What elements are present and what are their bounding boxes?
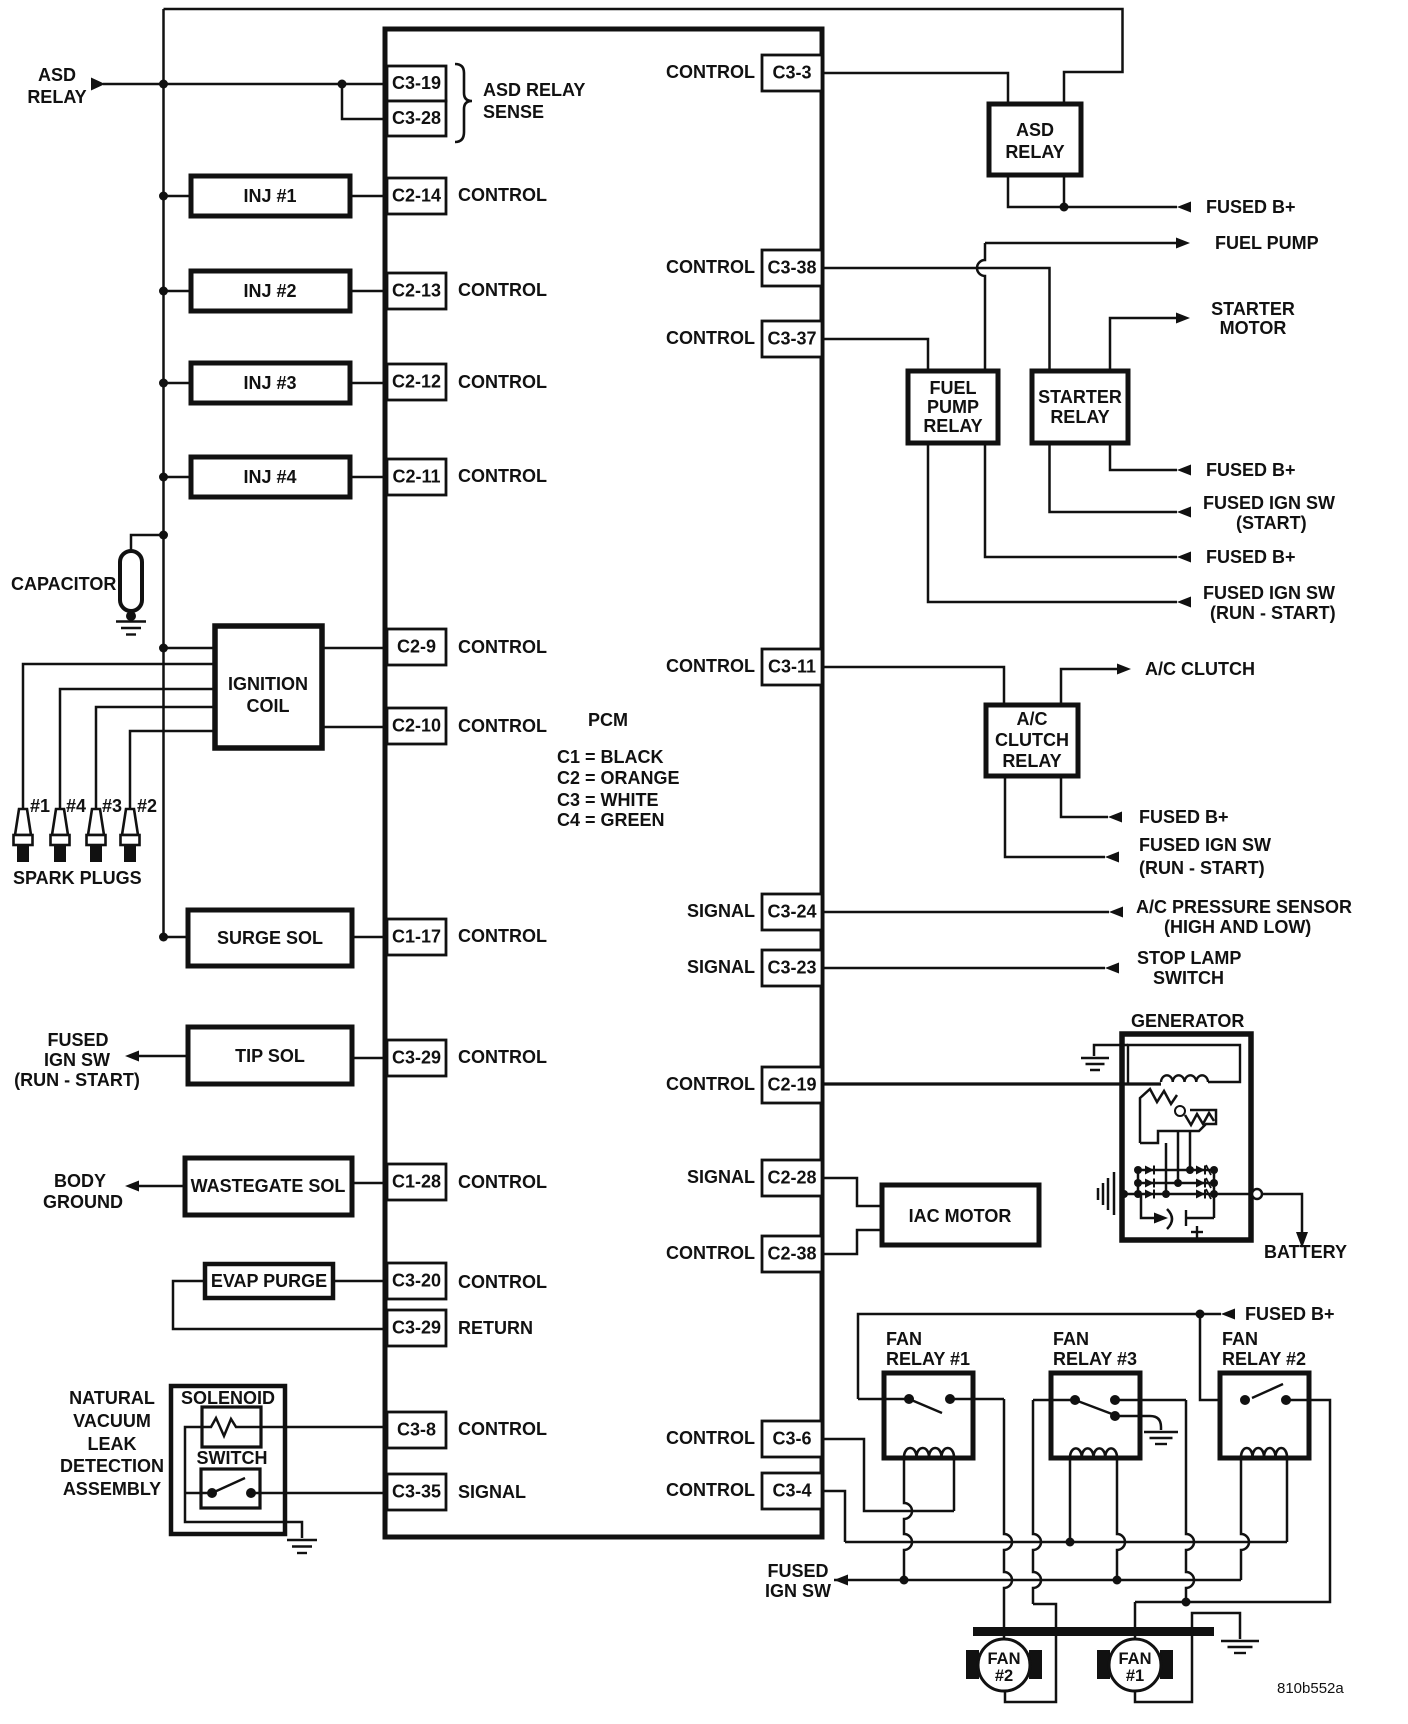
node: rectifier 1138,1194 (1134, 1190, 1142, 1198)
svg-text:CONTROL: CONTROL (458, 637, 547, 657)
ground for relay3 (1144, 1431, 1178, 1433)
svg-text:C3-4: C3-4 (772, 1481, 811, 1501)
wire: INJ #1 to PCM (350, 195, 387, 198)
svg-text:CONTROL: CONTROL (666, 1243, 755, 1263)
svg-text:ASSEMBLY: ASSEMBLY (63, 1479, 161, 1499)
wire: ASD relay sense wire (103, 83, 387, 86)
svg-text:CONTROL: CONTROL (666, 656, 755, 676)
relay1 contact right (945, 1394, 955, 1404)
svg-text:BODY: BODY (54, 1171, 106, 1191)
svg-text:C3-23: C3-23 (767, 958, 816, 978)
svg-text:C3-11: C3-11 (768, 657, 816, 677)
svg-text:FUEL: FUEL (930, 378, 977, 398)
node: fused B+ fan junction (1196, 1310, 1205, 1319)
node: rectifier 1138,1170 (1134, 1166, 1142, 1174)
node: rectifier 1124,1194 (1120, 1190, 1128, 1198)
wire: line A (C3-4 control) (845, 1541, 1287, 1544)
svg-text:(RUN - START): (RUN - START) (14, 1070, 140, 1090)
svg-text:#4: #4 (66, 796, 86, 816)
svg-text:RELAY #1: RELAY #1 (886, 1349, 970, 1369)
svg-text:C2-14: C2-14 (392, 186, 441, 206)
wire: bus to surge sol (164, 936, 189, 939)
svg-text:C2 = ORANGE: C2 = ORANGE (557, 768, 680, 788)
wire: NVLD internal common to ground (185, 1427, 302, 1538)
wire: fuel pump feed (985, 242, 1176, 245)
svg-text:IAC MOTOR: IAC MOTOR (909, 1206, 1012, 1226)
node: capacitor ground node (126, 611, 136, 621)
wire: starter relay to starter motor (1110, 318, 1176, 371)
generator rectifier rails (1137, 1170, 1140, 1194)
svg-text:FUSED IGN SW: FUSED IGN SW (1203, 493, 1335, 513)
injector INJ #1 (191, 176, 350, 216)
svg-text:FUSED IGN SW: FUSED IGN SW (1139, 835, 1271, 855)
arrow fused B+ (fans) (1221, 1309, 1235, 1320)
svg-text:CONTROL: CONTROL (458, 1047, 547, 1067)
label FUSED IGN SW (START) (1203, 493, 1335, 533)
svg-text:#2: #2 (137, 796, 157, 816)
svg-text:CONTROL: CONTROL (666, 1480, 755, 1500)
arrow starter motor (1176, 313, 1190, 324)
generator phase leads (1165, 1143, 1168, 1194)
wire: coil to spark plug 3 (96, 707, 215, 809)
node: relay1 coil on line B (900, 1576, 909, 1585)
pin C2-28 (762, 1160, 822, 1196)
spark plug #1 (14, 809, 33, 862)
wire: relay3 coil right to line B (1117, 1457, 1125, 1580)
svg-text:MOTOR: MOTOR (1220, 318, 1287, 338)
relay1 blade (909, 1399, 942, 1413)
wire: coil to spark plug 4 (60, 689, 215, 809)
svg-text:INJ #4: INJ #4 (243, 467, 296, 487)
arrow A/C pressure sensor (1109, 907, 1123, 918)
label STARTER MOTOR (1211, 299, 1295, 338)
svg-text:GENERATOR: GENERATOR (1131, 1011, 1244, 1031)
diode left row 1170 (1145, 1166, 1154, 1175)
arrow stop lamp switch (1105, 963, 1119, 974)
svg-text:C3-29: C3-29 (392, 1318, 441, 1338)
svg-text:CONTROL: CONTROL (666, 62, 755, 82)
svg-text:(HIGH AND LOW): (HIGH AND LOW) (1164, 917, 1311, 937)
svg-text:TIP SOL: TIP SOL (235, 1046, 305, 1066)
node: rectifier 1214,1183 (1210, 1179, 1218, 1187)
svg-text:RELAY: RELAY (1050, 407, 1109, 427)
svg-text:C2-12: C2-12 (392, 372, 441, 392)
svg-text:CONTROL: CONTROL (666, 1428, 755, 1448)
svg-text:FAN: FAN (1222, 1329, 1258, 1349)
svg-text:RELAY: RELAY (27, 87, 86, 107)
label FUSED IGN SW (RUN - START) (14, 1030, 140, 1090)
svg-text:CONTROL: CONTROL (458, 1172, 547, 1192)
wire: relay3 right contact to line C (1115, 1399, 1186, 1402)
arrow fused ign sw (A/C) (1105, 852, 1119, 863)
wire: INJ #4 to PCM (350, 476, 387, 479)
fan shroud bus bar (973, 1627, 1214, 1636)
label FAN RELAY #1 (886, 1329, 970, 1369)
arrow fused ign sw (125, 1051, 139, 1062)
svg-text:CONTROL: CONTROL (458, 372, 547, 392)
svg-text:#3: #3 (102, 796, 122, 816)
svg-text:SWITCH: SWITCH (197, 1448, 268, 1468)
wire: C3-24 to A/C pressure sensor (822, 911, 1109, 914)
label FUSED IGN SW (RUN - START) (1203, 583, 1336, 623)
label BODY GROUND (43, 1171, 123, 1212)
diode right row 1194 (1196, 1190, 1205, 1199)
wire: top bus from left rail to top-right corner (164, 9, 1123, 104)
wire: surge sol to C1-17 (352, 936, 387, 939)
wire: relay2 contact to line C (1135, 1400, 1330, 1602)
node: branch to C3-28 (338, 80, 347, 89)
svg-text:FUSED B+: FUSED B+ (1139, 807, 1229, 827)
wire: wastegate sol to C1-28 (352, 1182, 387, 1185)
svg-text:NATURAL: NATURAL (69, 1388, 155, 1408)
svg-text:C2-28: C2-28 (767, 1168, 816, 1188)
svg-text:A/C: A/C (1017, 709, 1048, 729)
svg-text:810b552a: 810b552a (1277, 1680, 1344, 1697)
svg-text:VACUUM: VACUUM (73, 1411, 151, 1431)
svg-text:FUEL PUMP: FUEL PUMP (1215, 233, 1319, 253)
svg-text:SPARK PLUGS: SPARK PLUGS (13, 868, 142, 888)
pin C2-13 (387, 273, 446, 309)
wire: bus to INJ #4 (164, 476, 192, 479)
svg-text:FUSED B+: FUSED B+ (1206, 547, 1296, 567)
node: bus tap inj3 (159, 379, 168, 388)
node: bus tap surge sol (159, 933, 168, 942)
wire: INJ #2 to PCM (350, 290, 387, 293)
svg-text:CONTROL: CONTROL (666, 1074, 755, 1094)
wire: C3-11 to A/C clutch relay (822, 667, 1004, 705)
arrow fused ign sw (run-start) (1177, 597, 1191, 608)
motor FAN #2 (966, 1639, 1042, 1691)
svg-text:#1: #1 (30, 796, 50, 816)
label FUSED IGN SW (RUN - START) (A/C) (1139, 835, 1271, 878)
svg-text:C3-29: C3-29 (392, 1048, 441, 1068)
wire: coil to C2-9 (322, 647, 387, 650)
wire: tip sol to C3-29 (352, 1057, 387, 1060)
arrow fused B+ (fuel pump) (1177, 552, 1191, 563)
svg-text:FUSED: FUSED (767, 1561, 828, 1581)
wire: C2-28 to IAC motor (822, 1178, 882, 1206)
svg-text:CONTROL: CONTROL (458, 926, 547, 946)
pin C2-11 (387, 459, 446, 495)
wire: evap purge to C3-20 (333, 1280, 387, 1283)
wire: bus to capacitor (131, 535, 164, 551)
pin C2-12 (387, 364, 446, 400)
generator field winding loop (1128, 1045, 1240, 1084)
svg-text:CONTROL: CONTROL (666, 328, 755, 348)
wire: switch left leg (185, 1492, 208, 1495)
solenoid EVAP PURGE (205, 1264, 333, 1298)
arrow A/C clutch (1117, 664, 1131, 675)
svg-text:C3-24: C3-24 (767, 902, 816, 922)
wire: line C to fan1 (1134, 1602, 1137, 1641)
pin C3-6 (762, 1421, 822, 1457)
svg-text:C3-37: C3-37 (767, 329, 816, 349)
svg-text:CAPACITOR: CAPACITOR (11, 574, 116, 594)
arrow fused B+ (starter) (1177, 465, 1191, 476)
svg-text:C1 = BLACK: C1 = BLACK (557, 747, 664, 767)
node: bus junction at ASD sense (159, 80, 168, 89)
svg-text:INJ #3: INJ #3 (243, 373, 296, 393)
wire: relay3 left contact to fan2 (1033, 1399, 1075, 1402)
wire: switch to C3-35 (251, 1492, 387, 1495)
relay3 blade (1075, 1400, 1112, 1414)
svg-text:BATTERY: BATTERY (1264, 1242, 1347, 1262)
wire: left vertical supply bus (162, 9, 165, 937)
svg-text:ASD RELAY: ASD RELAY (483, 80, 585, 100)
relay FUEL PUMP RELAY (908, 371, 998, 443)
svg-text:C3-35: C3-35 (392, 1482, 441, 1502)
ground for NVLD (287, 1539, 317, 1541)
generator rectifier rows (1138, 1169, 1214, 1172)
svg-text:C3-20: C3-20 (392, 1271, 441, 1291)
NVLD switch box (201, 1469, 260, 1508)
relay2 blade (1252, 1384, 1283, 1398)
pin C1-28 (387, 1164, 446, 1200)
pin C3-3 (762, 55, 822, 91)
svg-text:C2-11: C2-11 (392, 467, 440, 487)
spark plug #4 (51, 809, 70, 862)
svg-text:DETECTION: DETECTION (60, 1456, 164, 1476)
relay3 contact left (1070, 1395, 1080, 1405)
svg-text:FUSED IGN SW: FUSED IGN SW (1203, 583, 1335, 603)
arrow to ASD relay (91, 78, 105, 91)
pin C2-19 (762, 1067, 822, 1103)
wire: starter relay right pin to fused B+ (1110, 443, 1177, 470)
svg-text:SIGNAL: SIGNAL (458, 1482, 526, 1502)
wire: bus to INJ #3 (164, 382, 192, 385)
pin C3-11 (762, 649, 822, 685)
capacitor body (120, 551, 142, 611)
svg-text:PCM: PCM (588, 710, 628, 730)
svg-text:INJ #2: INJ #2 (243, 281, 296, 301)
arrow fused B+ (ASD) (1177, 202, 1191, 213)
svg-text:C3-38: C3-38 (767, 258, 816, 278)
wire: starter relay left pin to fused ign sw start (1050, 443, 1178, 512)
svg-text:CONTROL: CONTROL (458, 1419, 547, 1439)
wire: fuel pump relay right pin to fused B+ (985, 443, 1177, 557)
relay2 contact left (1240, 1395, 1250, 1405)
pin C3-38 (762, 250, 822, 286)
wire: C2-38 to IAC motor (822, 1230, 882, 1254)
PCM box (385, 29, 822, 1537)
svg-text:C3-6: C3-6 (772, 1429, 811, 1449)
wire: relay3 coil left to line A (1069, 1457, 1072, 1542)
pin C3-29b (387, 1310, 446, 1346)
pin C3-29 (387, 1040, 446, 1076)
node: rectifier 1190,1170 (1186, 1166, 1194, 1174)
wire: generator to battery (1262, 1194, 1302, 1232)
arrow fused ign sw (fans) (834, 1575, 848, 1586)
pin C3-35 (387, 1474, 446, 1510)
pin C3-19 (387, 66, 446, 101)
diode right row 1183 (1196, 1179, 1205, 1188)
node: rectifier 1178,1183 (1174, 1179, 1182, 1187)
svg-text:RELAY #2: RELAY #2 (1222, 1349, 1306, 1369)
svg-text:RELAY: RELAY (1005, 142, 1064, 162)
wire: relay3 NC to ground (1115, 1416, 1161, 1430)
svg-text:EVAP PURGE: EVAP PURGE (211, 1271, 327, 1291)
label NATURAL VACUUM LEAK DETECTION ASSEMBLY (60, 1388, 164, 1499)
NVLD assembly outer box (171, 1386, 285, 1534)
svg-text:RETURN: RETURN (458, 1318, 533, 1338)
wire: A/C relay right pin to fused B+ (1061, 776, 1108, 817)
svg-text:LEAK: LEAK (88, 1434, 137, 1454)
svg-text:FAN: FAN (1119, 1650, 1152, 1668)
wire: evap purge return loop to C3-29 (173, 1281, 387, 1329)
wire: relay1 coil left to fused ign sw (904, 1457, 912, 1580)
svg-text:IGN SW: IGN SW (44, 1050, 110, 1070)
wire: generator ground tap (1094, 1045, 1128, 1056)
svg-text:A/C PRESSURE SENSOR: A/C PRESSURE SENSOR (1136, 897, 1352, 917)
wire: bus to ignition coil (164, 647, 216, 650)
svg-text:FUSED: FUSED (47, 1030, 108, 1050)
svg-text:STOP LAMP: STOP LAMP (1137, 948, 1241, 968)
svg-text:FUSED B+: FUSED B+ (1206, 460, 1296, 480)
svg-text:CONTROL: CONTROL (458, 185, 547, 205)
svg-text:C2-13: C2-13 (392, 281, 441, 301)
ground for generator field (1081, 1057, 1109, 1060)
svg-text:FUSED B+: FUSED B+ (1245, 1304, 1335, 1324)
ASD RELAY left label (27, 65, 86, 107)
svg-text:CONTROL: CONTROL (458, 716, 547, 736)
pin C3-28 (387, 101, 446, 136)
svg-text:SURGE SOL: SURGE SOL (217, 928, 323, 948)
pin C3-23 (762, 950, 822, 986)
svg-text:STARTER: STARTER (1038, 387, 1122, 407)
svg-text:SOLENOID: SOLENOID (181, 1388, 275, 1408)
wire: relay2 coil left to line B end (1241, 1457, 1249, 1580)
solenoid WASTEGATE SOL (185, 1158, 352, 1215)
arrow fuel pump (1176, 238, 1190, 249)
wire: C3-38 to starter relay (822, 268, 1050, 371)
PCM connector color legend (557, 747, 680, 830)
svg-text:#1: #1 (1126, 1667, 1144, 1685)
node: ASD fused B+ junction (1060, 203, 1069, 212)
wire: A/C clutch feed (1061, 669, 1117, 705)
node: relay3 coil on line B (1113, 1576, 1122, 1585)
wire: solenoid internal + to C3-8 (202, 1418, 387, 1436)
svg-text:FAN: FAN (886, 1329, 922, 1349)
wire: INJ #3 to PCM (350, 382, 387, 385)
wire: ASD relay right pin down (1063, 175, 1066, 207)
wire: fuel pump relay left pin to fused ign sw (928, 443, 1177, 602)
relay3 NC contact (1110, 1411, 1120, 1421)
wire: fan2 return riser (1005, 1604, 1056, 1702)
pin C3-4 (762, 1473, 822, 1509)
label FAN RELAY #2 (1222, 1329, 1306, 1369)
switch contact left (207, 1488, 217, 1498)
brace for ASD relay sense (455, 64, 472, 142)
injector INJ #4 (191, 457, 350, 497)
arrow fused ign sw (start) (1177, 507, 1191, 518)
svg-text:SIGNAL: SIGNAL (687, 901, 755, 921)
node: bus tap capacitor (159, 531, 168, 540)
wire: C3-23 to stop lamp switch (822, 967, 1105, 970)
svg-text:CONTROL: CONTROL (458, 280, 547, 300)
label FUSED IGN SW (fans) (765, 1561, 831, 1601)
svg-text:CLUTCH: CLUTCH (995, 730, 1069, 750)
svg-text:C1-28: C1-28 (392, 1172, 441, 1192)
generator output terminal (1252, 1189, 1262, 1199)
relay ASD RELAY (989, 104, 1081, 175)
label FAN RELAY #3 (1053, 1329, 1137, 1369)
svg-text:STARTER: STARTER (1211, 299, 1295, 319)
ground for fan1 (1221, 1640, 1259, 1642)
svg-text:(RUN - START): (RUN - START) (1139, 858, 1265, 878)
wire: A/C relay left pin to fused ign sw (1005, 776, 1105, 857)
node: rectifier 1214,1170 (1210, 1166, 1218, 1174)
label STOP LAMP SWITCH (1137, 948, 1241, 988)
generator case hash marks (1097, 1188, 1100, 1200)
node: rectifier 1166,1194 (1162, 1190, 1170, 1198)
node: bus tap ignition coil (159, 644, 168, 653)
spark plug #3 (87, 809, 106, 862)
wire: bus to INJ #2 (164, 290, 192, 293)
diode right row 1170 (1196, 1166, 1205, 1175)
svg-text:FAN: FAN (1053, 1329, 1089, 1349)
label ASD RELAY SENSE (483, 80, 585, 122)
svg-text:SENSE: SENSE (483, 102, 544, 122)
wire: fuel pump output with hop (977, 243, 985, 371)
wire: C3-3 to ASD relay (822, 73, 1008, 104)
svg-text:(START): (START) (1236, 513, 1307, 533)
svg-text:#2: #2 (995, 1667, 1013, 1685)
generator rotor arrow (1141, 1194, 1158, 1218)
svg-text:CONTROL: CONTROL (458, 1272, 547, 1292)
svg-text:ASD: ASD (38, 65, 76, 85)
generator plus terminal mark (1185, 1210, 1187, 1226)
svg-text:SIGNAL: SIGNAL (687, 957, 755, 977)
svg-text:C3-19: C3-19 (392, 73, 441, 93)
svg-text:FUSED B+: FUSED B+ (1206, 197, 1296, 217)
wire: ASD relay left pin down (1008, 175, 1177, 207)
svg-text:FAN: FAN (988, 1650, 1021, 1668)
svg-text:C3-8: C3-8 (397, 1420, 436, 1440)
wire: coil to C2-10 (322, 726, 387, 729)
wire: fan relay feed top line (858, 1314, 1221, 1399)
generator stator winding (1140, 1089, 1177, 1143)
injector INJ #3 (191, 363, 350, 403)
switch blade (212, 1478, 245, 1493)
relay FAN RELAY #3 (1051, 1373, 1140, 1458)
relay FAN RELAY #2 (1220, 1373, 1309, 1458)
svg-text:SIGNAL: SIGNAL (687, 1167, 755, 1187)
wire: line B (fused ign sw) (834, 1579, 1241, 1582)
relay1 coil (904, 1448, 954, 1457)
svg-text:SWITCH: SWITCH (1153, 968, 1224, 988)
svg-text:RELAY: RELAY (923, 416, 982, 436)
node: rectifier 1214,1194 (1210, 1190, 1218, 1198)
wire: relay2 coil right to line A end (1286, 1457, 1289, 1542)
pin C2-10 (387, 708, 446, 744)
svg-text:CONTROL: CONTROL (666, 257, 755, 277)
pin C3-24 (762, 894, 822, 930)
generator field inductor (1161, 1075, 1208, 1082)
pin C2-38 (762, 1236, 822, 1272)
pin C2-9 (387, 629, 446, 665)
node: bus tap inj2 (159, 287, 168, 296)
ignition coil box (215, 626, 322, 748)
relay FAN RELAY #1 (884, 1373, 973, 1458)
relay A/C CLUTCH RELAY (986, 705, 1078, 776)
injector INJ #2 (191, 271, 350, 311)
wire: relay1 contact to fan2 (950, 1398, 1004, 1401)
svg-text:A/C CLUTCH: A/C CLUTCH (1145, 659, 1255, 679)
wire: bus to INJ #1 (164, 195, 192, 198)
label A/C PRESSURE SENSOR (HIGH AND LOW) (1136, 897, 1352, 937)
switch contact right (246, 1488, 256, 1498)
svg-text:C4 = GREEN: C4 = GREEN (557, 810, 665, 830)
